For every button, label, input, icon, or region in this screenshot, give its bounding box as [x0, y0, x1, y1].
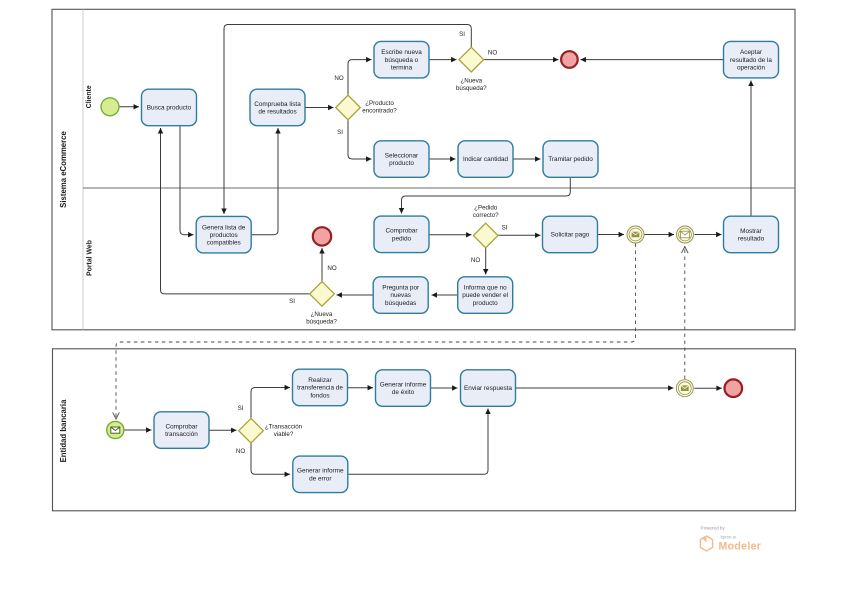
svg-text:Cliente: Cliente: [86, 85, 93, 108]
svg-text:Sistema eCommerce: Sistema eCommerce: [59, 130, 68, 207]
svg-text:Solicitar pago: Solicitar pago: [551, 232, 590, 239]
svg-text:producto: producto: [389, 160, 414, 167]
svg-text:operación: operación: [737, 64, 766, 71]
svg-text:resultado de la: resultado de la: [730, 57, 772, 64]
svg-text:Portal Web: Portal Web: [87, 240, 94, 276]
svg-text:Entidad bancaria: Entidad bancaria: [59, 399, 68, 462]
svg-text:Comprobar: Comprobar: [166, 423, 199, 430]
svg-text:Powered by: Powered by: [701, 526, 726, 531]
svg-text:Tramitar pedido: Tramitar pedido: [548, 156, 593, 163]
svg-text:Aceptar: Aceptar: [740, 49, 763, 56]
svg-text:NO: NO: [334, 75, 343, 82]
svg-text:Realizar: Realizar: [308, 377, 332, 384]
svg-text:Seleccionar: Seleccionar: [385, 152, 419, 159]
svg-text:Busca producto: Busca producto: [147, 105, 192, 112]
svg-text:Escribe nueva: Escribe nueva: [381, 49, 422, 56]
svg-text:producto: producto: [473, 300, 498, 307]
svg-text:SI: SI: [459, 31, 465, 38]
svg-text:pedido: pedido: [392, 235, 412, 242]
svg-text:¿Nueva: ¿Nueva: [311, 311, 333, 318]
svg-text:Enviar respuesta: Enviar respuesta: [464, 385, 512, 392]
svg-text:Mostrar: Mostrar: [740, 228, 763, 235]
svg-text:Comprobar: Comprobar: [386, 228, 419, 235]
svg-text:Genera lista de: Genera lista de: [202, 224, 246, 231]
svg-text:transacción: transacción: [165, 431, 198, 438]
svg-text:SI: SI: [238, 405, 244, 412]
svg-text:bpmn.io: bpmn.io: [721, 535, 737, 540]
svg-text:¿Transacción: ¿Transacción: [265, 424, 303, 431]
svg-text:¿Producto: ¿Producto: [365, 100, 394, 107]
svg-text:Modeler: Modeler: [719, 541, 762, 553]
svg-text:Pregunta por: Pregunta por: [382, 285, 420, 292]
svg-text:Informa que no: Informa que no: [464, 285, 507, 292]
svg-text:SI: SI: [337, 129, 343, 136]
svg-text:nuevas: nuevas: [390, 292, 411, 299]
svg-text:SI: SI: [502, 225, 508, 232]
svg-text:productos: productos: [210, 232, 238, 239]
svg-text:SI: SI: [289, 298, 295, 305]
svg-text:viable?: viable?: [274, 431, 294, 438]
svg-text:termina: termina: [391, 64, 413, 71]
svg-text:búsqueda?: búsqueda?: [456, 85, 487, 92]
svg-text:compatibles: compatibles: [207, 240, 241, 247]
svg-text:Comprueba lista: Comprueba lista: [254, 101, 301, 108]
svg-text:NO: NO: [327, 265, 336, 272]
svg-text:búsqueda o: búsqueda o: [385, 57, 419, 64]
svg-text:Generar informe: Generar informe: [380, 381, 427, 388]
svg-text:puede vender el: puede vender el: [462, 292, 508, 299]
svg-text:¿Nueva: ¿Nueva: [460, 78, 482, 85]
svg-text:transferencia de: transferencia de: [297, 385, 343, 392]
svg-text:de resultados: de resultados: [258, 109, 296, 116]
svg-text:búsqueda?: búsqueda?: [306, 319, 337, 326]
svg-text:fondos: fondos: [310, 392, 329, 399]
svg-text:de error: de error: [309, 475, 332, 482]
svg-text:de éxito: de éxito: [392, 389, 415, 396]
svg-text:Indicar cantidad: Indicar cantidad: [463, 156, 509, 163]
svg-text:búsquedas: búsquedas: [385, 300, 416, 307]
svg-text:NO: NO: [236, 448, 245, 455]
svg-text:correcto?: correcto?: [473, 212, 499, 219]
svg-text:NO: NO: [471, 257, 480, 264]
svg-text:Generar informe: Generar informe: [297, 468, 344, 475]
svg-text:NO: NO: [488, 50, 497, 57]
svg-text:¿Pedido: ¿Pedido: [474, 205, 498, 212]
svg-text:encontrado?: encontrado?: [362, 108, 397, 115]
svg-text:resultado: resultado: [738, 236, 765, 243]
